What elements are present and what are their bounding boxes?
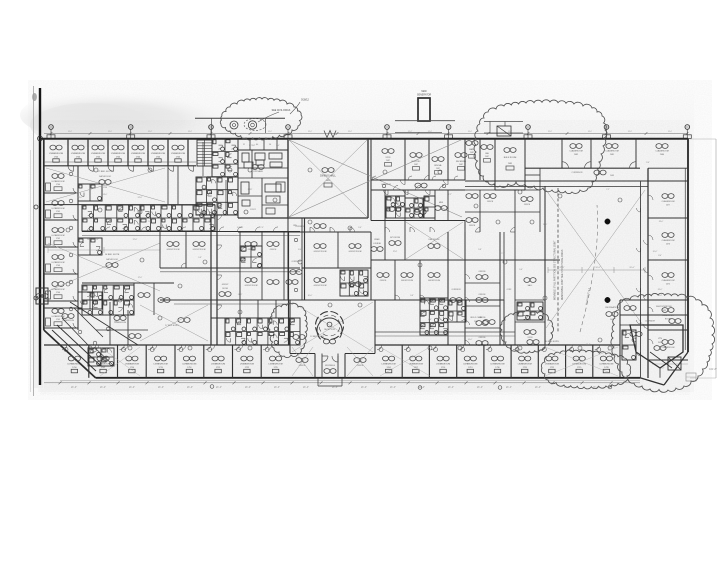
classrooms top right (562, 144, 669, 169)
revision cloud 1 top-left (220, 98, 302, 140)
multipurpose block (620, 300, 688, 378)
svg-text:161'-8": 161'-8" (709, 368, 717, 371)
right dimension line (690, 139, 717, 378)
suite 17bed (46, 168, 165, 202)
top band room tags (49, 145, 185, 162)
scan noise overlay (28, 80, 712, 400)
bottom band rooms right (377, 345, 614, 378)
right column tags (637, 194, 675, 356)
corner dim box (686, 373, 696, 381)
scattered dim texts (93, 189, 663, 346)
suite 10bed (48, 239, 160, 291)
bottom dimension line (44, 380, 640, 384)
left bay (36, 288, 48, 304)
grid bubble left end (38, 136, 43, 141)
suite 12bed label (140, 305, 208, 341)
outer wall bottom (96, 377, 641, 379)
dining hall (238, 139, 368, 218)
admin block (371, 176, 465, 221)
bottom band extra arcs (94, 345, 272, 350)
lobby walls (290, 300, 375, 354)
dense block lower mid (225, 318, 300, 345)
vestibule flank offices (292, 347, 373, 376)
margin blob (32, 93, 37, 101)
recreation room (465, 181, 648, 328)
new generator (395, 91, 455, 133)
bulk room (495, 139, 540, 190)
top dimension texts (68, 131, 673, 133)
rooms row y268 (160, 268, 300, 300)
top band door swings (68, 166, 194, 172)
scan wash plan area (38, 84, 694, 392)
diag wing details (62, 308, 141, 366)
revision cloud 3 bottom-right (611, 293, 715, 392)
utility stair block (196, 139, 238, 215)
pen room (288, 218, 302, 232)
left shared toilets (78, 184, 102, 309)
construction sightline X (288, 140, 462, 218)
staff day rooms (371, 221, 560, 261)
scan smudge top-left (20, 83, 280, 388)
outer wall top (40, 138, 688, 140)
outer wall left chamfer (44, 330, 96, 378)
diag wing walls (44, 302, 148, 371)
sheet margin faint line (31, 86, 34, 396)
vestibule (315, 354, 345, 387)
svg-text:GENERATOR: GENERATOR (417, 93, 432, 96)
corridor v upper (168, 166, 178, 205)
grid bubble left mid (34, 205, 38, 300)
stairs (197, 140, 212, 166)
group rooms row (160, 232, 300, 272)
corridor door arcs (87, 215, 648, 329)
office column (448, 232, 500, 345)
corridor v main (211, 215, 217, 345)
serving corridor (238, 218, 371, 232)
suite dim line (48, 247, 160, 253)
left column tags (46, 172, 79, 328)
roof mark (324, 131, 336, 138)
revision cloud 6 lobby-left (268, 303, 307, 357)
svg-text:NEW: NEW (421, 91, 427, 93)
mid lower walls (44, 300, 620, 345)
rooms above offices right (465, 190, 540, 232)
left column walls (44, 166, 78, 330)
corridor top right (572, 170, 614, 177)
black dot 1 (605, 219, 610, 224)
right col dim (652, 364, 688, 370)
revision cloud 5 left-club (500, 310, 553, 353)
cloud2 interior (484, 122, 523, 137)
top dimension line (44, 132, 688, 135)
grid bubbles top row (47, 125, 691, 139)
sheet edge dark line (39, 88, 41, 385)
sightlines bottom (100, 347, 618, 376)
outer wall right (687, 139, 689, 352)
mid column rooms (288, 232, 371, 300)
recreation dim line (548, 267, 645, 273)
reception desk (316, 312, 344, 344)
suite mid label (293, 335, 325, 340)
dense toilet block mid (420, 298, 466, 335)
door number tags scattered (66, 168, 636, 350)
outer wall right inner (684, 168, 686, 350)
revision cloud 4 bottom-mid (541, 350, 630, 389)
corridor spine mid (289, 218, 305, 345)
corridor y332 right (375, 332, 515, 336)
scan noise overlay lower (40, 120, 690, 395)
black dot 2 (605, 297, 610, 302)
svg-text:5/28/12: 5/28/12 (301, 100, 309, 102)
scan smudge defs (0, 0, 1, 1)
cloud1 interior (195, 100, 310, 139)
top band walls right (371, 139, 688, 221)
revision cloud 2 top-right (474, 100, 607, 194)
bottom band rooms left (62, 345, 283, 378)
hall block (515, 186, 545, 345)
kitchen (238, 139, 288, 218)
wall mid y205 (44, 205, 300, 236)
top right room labels (382, 141, 493, 185)
phasing arc (580, 205, 598, 332)
bath mid small (240, 246, 262, 268)
bath row left mid (82, 283, 174, 315)
right column walls (620, 168, 688, 378)
outer wall left (43, 139, 45, 330)
bottom dimension texts (71, 386, 599, 389)
svg-text:SEE CIVIL DWGS: SEE CIVIL DWGS (272, 110, 291, 112)
wlf club (448, 300, 504, 345)
bottom tiny bubbles (210, 385, 612, 390)
top band walls left (44, 139, 196, 166)
offices mid lower (371, 260, 448, 300)
outer wall bottom right diag (640, 352, 688, 385)
bath core row (82, 205, 215, 231)
suite right label (527, 340, 560, 345)
movable partition dashed (554, 188, 565, 332)
corridor right of club (504, 232, 515, 345)
